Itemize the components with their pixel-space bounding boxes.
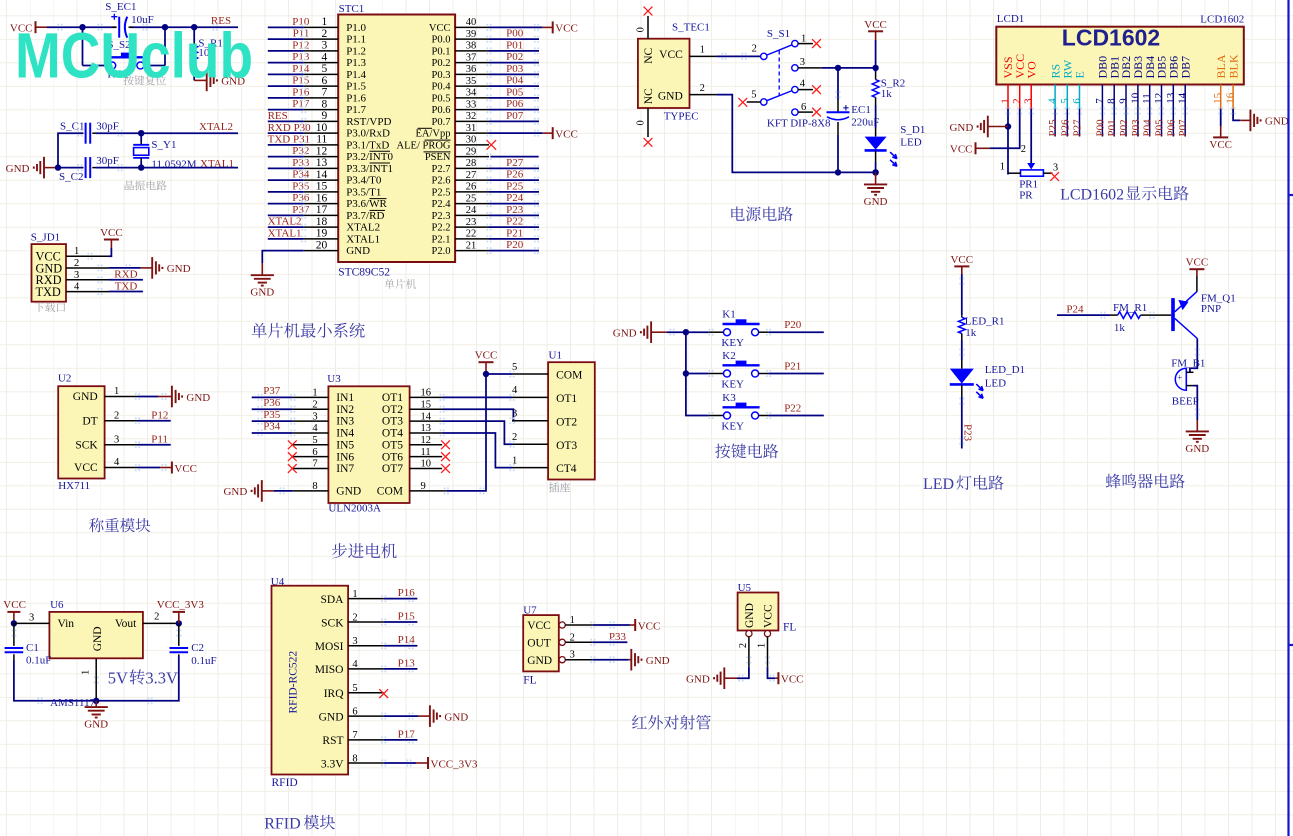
pin 5 U(STC1) [304,73,339,75]
node junction [872,169,879,176]
svg-text:OT5: OT5 [382,439,403,451]
pin 13 U3 [410,432,443,434]
svg-text:18: 18 [316,216,328,228]
svg-text:1k: 1k [881,88,893,100]
svg-text:8: 8 [352,753,357,764]
svg-text:26: 26 [466,182,477,193]
pin 35 U(STC1) [455,85,489,87]
svg-text:GND: GND [444,711,468,723]
svg-text:P01: P01 [506,39,523,51]
pin 7 U3 [293,468,329,470]
svg-text:P34: P34 [263,421,281,433]
wire [268,38,304,40]
wire [489,120,539,122]
pin 15 U(STC1) [304,191,339,193]
svg-text:9: 9 [322,110,328,122]
svg-text:P25: P25 [1047,119,1059,137]
svg-text:VCC: VCC [638,620,661,632]
svg-text:VCC: VCC [781,674,804,686]
svg-text:GND: GND [84,719,108,731]
svg-text:XTAL2: XTAL2 [268,216,302,228]
title key circuit [715,444,730,459]
svg-text:P1.2: P1.2 [346,45,366,57]
svg-text:3: 3 [322,40,328,52]
svg-text:XTAL1: XTAL1 [346,233,380,245]
svg-text:6: 6 [352,706,357,717]
no connect S_S1 pin4 [812,85,821,94]
pin 5 U1 [512,373,548,375]
svg-text:4: 4 [312,423,318,434]
svg-text:FM_R1: FM_R1 [1113,302,1147,314]
wire [252,396,293,398]
svg-text:KEY: KEY [721,337,744,349]
title power circuit [731,206,744,220]
potentiometer PR1 [1027,163,1035,170]
wire [262,251,303,263]
wire [58,167,83,169]
pin 2 S_JD1 [66,267,109,269]
wire [109,279,143,281]
pin 37 U(STC1) [455,62,489,64]
svg-text:LCD1602: LCD1602 [1062,24,1160,50]
svg-text:P0.1: P0.1 [432,46,451,57]
title IR pair tube [632,715,647,729]
svg-text:15: 15 [421,399,432,410]
svg-text:GND: GND [223,486,247,498]
svg-text:P3.7/RD: P3.7/RD [346,210,384,222]
power port VCC (backlight) [1220,126,1222,137]
svg-text:VCC: VCC [475,350,498,362]
svg-text:XTAL2: XTAL2 [346,222,380,234]
wire [1057,314,1110,316]
svg-text:P13: P13 [292,51,310,63]
node junction [176,620,182,626]
svg-text:NC: NC [643,47,655,63]
svg-text:LED_R1: LED_R1 [965,316,1005,328]
svg-text:EC1: EC1 [851,104,871,116]
power port VCC (U2) [160,467,172,469]
wire [384,739,418,741]
svg-text:IN2: IN2 [336,404,354,416]
svg-text:GND: GND [686,674,710,686]
svg-text:GND: GND [949,122,973,134]
svg-text:IN4: IN4 [336,428,354,440]
svg-text:P1.3: P1.3 [346,57,366,69]
svg-text:4: 4 [352,659,358,670]
pin 5 S_S1 [747,101,761,103]
wire [667,331,686,333]
wire [82,27,84,65]
svg-text:1: 1 [81,670,92,675]
capacitor C2 [170,647,189,649]
svg-text:11: 11 [1141,93,1153,104]
svg-text:31: 31 [466,123,477,134]
wire [1007,173,1009,174]
pin 2 U3 [293,408,329,410]
wire [1137,109,1139,137]
svg-text:4: 4 [114,457,120,468]
pin 1 U4 [348,598,384,600]
svg-text:30pF: 30pF [96,155,119,167]
svg-text:KEY: KEY [721,420,744,432]
svg-text:RES: RES [268,110,288,122]
wire [138,444,171,446]
wire [1149,109,1151,137]
svg-text:6: 6 [312,447,317,458]
svg-text:3: 3 [800,57,805,68]
svg-text:P0.3: P0.3 [432,70,451,81]
pin 10 U3 [410,468,443,470]
node junction [483,371,489,377]
wire [961,274,963,315]
label MCU grey [384,279,394,289]
svg-text:14: 14 [421,411,432,422]
svg-text:GND: GND [186,392,210,404]
svg-text:P33: P33 [609,631,627,643]
svg-text:RST/VPD: RST/VPD [346,116,391,128]
power port VCC_3V3 (U4) [416,762,428,764]
svg-text:S_JD1: S_JD1 [31,232,60,244]
wire [1007,109,1009,175]
svg-text:IN6: IN6 [336,451,354,463]
pin 25 U(STC1) [455,203,489,205]
svg-text:P34: P34 [292,169,310,181]
wire [109,291,143,293]
svg-text:9: 9 [421,481,426,492]
svg-text:2: 2 [322,28,328,40]
pin 5 U3 [293,444,329,446]
svg-text:S_C2: S_C2 [59,171,83,183]
svg-text:P35: P35 [263,409,281,421]
svg-text:GND: GND [646,655,670,667]
no connect PR1 pin3 [1050,172,1059,181]
wire [130,26,238,28]
wire [268,167,304,169]
svg-text:VCC: VCC [1209,139,1232,151]
svg-text:U1: U1 [549,349,562,361]
no connect U3 pin5 [288,440,297,449]
wire [268,62,304,64]
svg-text:2: 2 [1021,144,1026,155]
svg-text:37: 37 [466,52,477,63]
svg-text:GND: GND [1185,443,1209,455]
pin 15 U3 [410,408,443,410]
svg-text:LCD1: LCD1 [997,13,1025,25]
ground (U6) [95,701,97,707]
no connect U3 pin7 [288,464,297,473]
svg-text:MISO: MISO [315,664,344,676]
overline PROG [425,139,451,141]
svg-text:1k: 1k [1114,322,1126,334]
svg-text:P0.5: P0.5 [432,93,451,104]
svg-text:OUT: OUT [527,638,551,650]
wire [252,432,293,434]
svg-text:GND: GND [73,391,98,403]
svg-text:P27: P27 [1072,119,1084,137]
svg-text:4: 4 [322,51,328,63]
wire [148,65,165,67]
svg-text:VO: VO [1024,61,1038,79]
capacitor S_C1 [82,132,85,134]
pin 1 U5 [764,631,770,637]
power port VCC (U7) [630,624,635,626]
wire [1030,109,1032,163]
wire [96,167,238,169]
power port VCC (download) [110,240,112,249]
pin 24 U(STC1) [455,214,489,216]
svg-text:P1.7: P1.7 [346,104,366,116]
pin 3 U4 [348,645,384,647]
pin 4 S_JD1 [66,291,109,293]
wire [1172,109,1174,137]
svg-text:6: 6 [1071,98,1083,104]
svg-text:13: 13 [1165,92,1177,104]
pin 4 U4 [348,668,384,670]
svg-text:OT1: OT1 [556,393,577,405]
svg-text:S_S1: S_S1 [767,28,790,40]
svg-text:14: 14 [316,169,328,181]
svg-text:1k: 1k [965,327,977,339]
svg-text:VCC: VCC [864,19,887,31]
wire [875,40,877,68]
svg-text:C1: C1 [26,642,39,654]
svg-text:P21: P21 [784,361,801,373]
wire [14,656,179,701]
svg-text:LED: LED [923,476,954,493]
svg-text:5: 5 [322,63,328,75]
svg-text:3: 3 [74,270,79,281]
svg-text:VCC: VCC [950,144,973,156]
svg-text:10: 10 [1129,92,1141,104]
pin 10 U(STC1) [304,132,339,134]
wire [768,667,776,679]
svg-text:P01: P01 [1106,119,1118,136]
svg-text:NC: NC [643,88,655,104]
svg-text:OT3: OT3 [382,416,403,428]
pin 22 U(STC1) [455,238,489,240]
svg-text:P26: P26 [506,169,524,181]
svg-text:RFID: RFID [264,816,300,833]
svg-text:P0.7: P0.7 [432,117,451,128]
power port VCC (buzzer) [1189,268,1204,270]
wire [268,226,304,228]
svg-text:27: 27 [466,170,477,181]
svg-text:P04: P04 [1142,119,1154,137]
wire [822,67,876,69]
svg-text:P3.1/TxD: P3.1/TxD [346,139,389,151]
svg-text:2: 2 [74,258,79,269]
wire [58,133,83,167]
svg-text:24: 24 [466,205,477,216]
svg-text:P24: P24 [506,192,524,204]
svg-text:FL: FL [783,621,796,633]
wire [384,762,416,764]
svg-text:GND: GND [6,163,30,175]
wire [489,179,539,181]
svg-text:6: 6 [322,75,328,87]
pin 2 S_TEC1 [690,94,717,96]
title stepper motor [332,543,347,558]
svg-text:P23: P23 [506,204,524,216]
svg-text:P27: P27 [506,157,524,169]
wire [1233,109,1240,121]
pin 7 U(STC1) [304,97,339,99]
label download port grey [34,302,44,312]
pin 3 S_S1 [798,67,822,69]
power port VCC (U1) [479,361,494,363]
wire [384,621,418,623]
ground (reset) [194,79,207,81]
wire [268,179,304,181]
svg-text:P2.0: P2.0 [432,246,451,257]
wire [990,109,1020,149]
svg-text:29: 29 [466,146,477,157]
svg-text:P2.2: P2.2 [432,223,451,234]
svg-text:P04: P04 [506,75,524,87]
svg-text:GND: GND [250,287,274,299]
svg-text:FL: FL [523,675,536,687]
wire [961,397,963,449]
pin 29 U(STC1) [455,156,489,158]
pin 39 U(STC1) [455,38,489,40]
svg-text:EA/Vpp: EA/Vpp [416,129,451,140]
wire [489,62,539,64]
pin 16 U3 [410,396,443,398]
svg-text:SCK: SCK [321,617,344,629]
power port VCC (LCD) [976,147,991,149]
pin 2 U6 [143,622,179,624]
svg-text:IN7: IN7 [336,463,354,475]
wire [138,420,171,422]
pin 18 U(STC1) [304,226,339,228]
svg-text:OT3: OT3 [556,440,577,452]
svg-text:5: 5 [751,90,756,101]
svg-text:17: 17 [316,204,328,216]
diode S_D1 LED [875,128,877,137]
pin 4 U(STC1) [304,62,339,64]
svg-text:2: 2 [154,612,159,623]
svg-text:12: 12 [1153,93,1165,104]
pin 38 U(STC1) [455,50,489,52]
no connect bottom [644,138,653,147]
svg-text:2: 2 [570,632,575,643]
pin 2 U2 [105,420,138,422]
wire [489,26,543,28]
svg-text:0: 0 [636,27,647,32]
svg-text:ULN2003A: ULN2003A [328,502,381,514]
svg-text:34: 34 [466,88,477,99]
wire [593,659,629,661]
svg-text:38: 38 [466,41,477,52]
svg-text:CT4: CT4 [556,463,577,475]
wire [1113,109,1115,137]
node junction [79,24,85,30]
svg-text:11.0592M: 11.0592M [151,158,196,170]
svg-text:E: E [1073,71,1087,78]
svg-text:VCC: VCC [527,620,551,632]
pin 2 U1 [512,443,548,445]
no connect top [644,7,653,16]
pin 13 U(STC1) [304,167,339,169]
svg-text:11: 11 [421,447,431,458]
svg-text:P14: P14 [292,63,310,75]
svg-text:DB7: DB7 [1178,56,1192,79]
svg-text:7: 7 [312,459,317,470]
pin 33 U(STC1) [455,109,489,111]
svg-text:P22: P22 [506,216,523,228]
svg-text:P37: P37 [292,204,310,216]
node junction [162,24,168,30]
svg-text:3.3V: 3.3V [321,758,344,770]
svg-text:P3.5/T1: P3.5/T1 [346,186,381,198]
svg-text:2: 2 [312,399,317,410]
svg-text:GND: GND [319,711,344,723]
svg-text:P3.6/WR: P3.6/WR [346,198,387,210]
svg-text:P03: P03 [1130,119,1142,137]
svg-text:20: 20 [316,239,328,251]
wire [96,132,238,134]
svg-text:OT1: OT1 [382,392,403,404]
svg-text:TXD P31: TXD P31 [268,134,310,146]
pin 31 U(STC1) [455,132,489,134]
svg-text:13: 13 [316,157,328,169]
svg-text:8: 8 [322,98,328,110]
svg-text:40: 40 [466,17,477,28]
wire [252,408,293,410]
svg-text:P05: P05 [506,86,524,98]
svg-text:3: 3 [352,636,357,647]
svg-text:19: 19 [316,228,328,240]
svg-text:XTAL2: XTAL2 [199,121,233,133]
pin 17 U(STC1) [304,214,339,216]
svg-text:13: 13 [421,423,432,434]
svg-text:33: 33 [466,99,477,110]
svg-text:VCC: VCC [762,604,774,628]
svg-text:GND: GND [346,245,370,257]
node junction [138,130,144,136]
pin 11 U3 [410,456,443,458]
svg-text:7: 7 [1094,98,1106,104]
svg-text:P05: P05 [1154,119,1166,137]
svg-text:1: 1 [801,33,806,44]
wire [489,97,539,99]
capacitor S_EC1 [112,26,117,28]
svg-text:P33: P33 [292,157,310,169]
capacitor EC1 [837,68,839,100]
svg-text:P00: P00 [1094,119,1106,137]
pin 1 U7 [559,622,565,628]
title minimal system [252,323,267,338]
wire [686,331,709,333]
svg-text:3: 3 [1053,163,1058,174]
svg-text:GND: GND [658,91,683,103]
power port VCC (LED) [954,265,969,267]
wire [489,73,539,75]
pin 3 U3 [293,420,329,422]
svg-text:VCC: VCC [950,254,973,266]
svg-text:6: 6 [801,102,806,113]
pin 7 U4 [348,739,384,741]
node junction [872,65,878,71]
label socket grey [549,482,559,492]
wire [1054,109,1056,137]
pin 4 U2 [105,467,138,469]
svg-text:P20: P20 [784,319,802,331]
svg-text:2: 2 [1011,98,1023,103]
pin 9 U(STC1) [304,120,339,122]
wire [686,373,709,375]
pin 5 U4 [348,692,384,694]
